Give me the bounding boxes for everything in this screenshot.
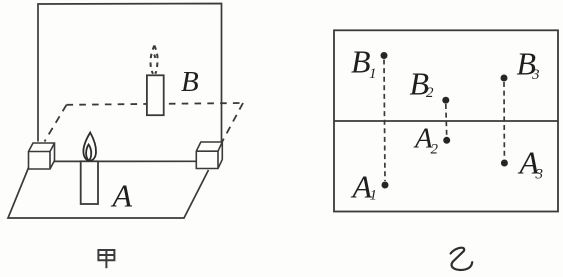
svg-text:A: A [111, 178, 133, 214]
point A3 [501, 160, 508, 167]
svg-text:B: B [351, 44, 371, 80]
point B1 [381, 52, 388, 59]
mirror line [334, 120, 558, 122]
dashed flame (image of flame) above candle B [150, 46, 157, 74]
svg-text:3: 3 [531, 67, 540, 83]
point B2 [442, 97, 449, 104]
table back-right edge (dashed) [222, 103, 243, 142]
svg-text:3: 3 [535, 167, 544, 183]
point A2 [443, 137, 450, 144]
svg-text:B: B [181, 66, 199, 98]
svg-text:2: 2 [431, 142, 439, 158]
support cube right [196, 142, 222, 169]
table back edge (dashed) [67, 103, 244, 105]
caption 甲 [98, 250, 114, 268]
candle B (behind board) [147, 75, 164, 115]
glass board (vertical plate) [38, 4, 222, 162]
table back-left edge (dashed) [45, 105, 67, 142]
dashed line B2-A2 [445, 104, 448, 136]
point A1 [382, 182, 389, 189]
svg-text:2: 2 [426, 85, 434, 101]
dashed line B1-A1 [384, 60, 385, 182]
table front outline [8, 167, 209, 219]
caption 乙 [451, 248, 473, 270]
candle A (in front) [81, 161, 98, 204]
point B3 [501, 75, 508, 82]
svg-text:1: 1 [369, 66, 377, 82]
dashed line B3-A3 [503, 82, 505, 159]
mirror diagram box (乙) [334, 30, 558, 211]
support cube left [29, 143, 55, 169]
flame of candle A [83, 133, 96, 161]
svg-text:1: 1 [370, 188, 378, 204]
